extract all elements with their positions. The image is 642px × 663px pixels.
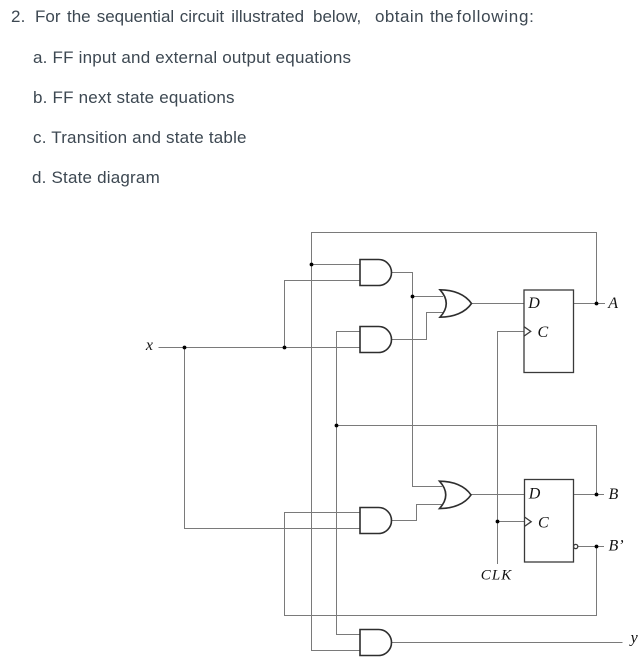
svg-text:y: y xyxy=(629,630,639,647)
wire clock line CLK xyxy=(498,332,525,565)
junction dot clock to FF2 xyxy=(496,520,500,524)
wire x up-branch to gate1 lower input xyxy=(285,281,361,348)
and-gate G3 xyxy=(360,508,392,534)
svg-text:D: D xyxy=(528,485,541,502)
and-gate G2 xyxy=(360,327,392,353)
junction dot node B xyxy=(595,493,599,497)
svg-text:C: C xyxy=(538,515,549,532)
item a xyxy=(33,49,351,66)
item b xyxy=(33,89,235,106)
wire clock branch to FF2 C xyxy=(498,521,525,523)
wire B feedback to gate2 upper input and gate4 xyxy=(337,332,361,635)
wire gate1 output to OR1 and down xyxy=(392,273,443,487)
flip-flop U2 clock triangle xyxy=(525,517,532,526)
wire B-prime feedback down and left xyxy=(285,513,597,616)
svg-text:B’: B’ xyxy=(609,538,624,555)
and-gate G4 xyxy=(360,630,392,656)
wire B output xyxy=(574,494,605,496)
junction dot x to gate1 branch xyxy=(283,346,287,350)
wire x down-branch to gate3 lower input xyxy=(185,348,361,529)
flip-flop U2 body xyxy=(525,480,574,563)
wire B-prime output xyxy=(578,546,604,548)
svg-text:D: D xyxy=(527,295,540,312)
wire OR1 upper input branch xyxy=(413,296,444,298)
wire A vertical to gate4 xyxy=(312,265,361,651)
svg-text:A: A xyxy=(607,295,618,312)
wire gate4 output y xyxy=(392,642,623,644)
svg-text:B: B xyxy=(609,486,619,503)
svg-text:CLK: CLK xyxy=(481,568,513,584)
junction dot gate1 output to OR1 xyxy=(411,295,415,299)
wire gate1 upper input from A line xyxy=(312,264,361,266)
question text line 1 xyxy=(0,7,1,9)
junction dot node A xyxy=(595,302,599,306)
wire A output xyxy=(574,303,606,305)
junction dot node B-prime xyxy=(595,545,599,549)
question number 2. xyxy=(11,8,26,25)
item c xyxy=(33,129,247,146)
wire B feedback horizontal xyxy=(337,426,597,495)
or-gate O2 xyxy=(440,481,472,508)
flip-flop U1 body xyxy=(524,290,574,373)
wire top feedback A xyxy=(312,233,597,304)
junction dot x to gate3 branch xyxy=(183,346,187,350)
flip-flop U1 clock triangle xyxy=(524,327,531,336)
and-gate G1 xyxy=(360,260,392,286)
wire gate2 output to OR1 lower input xyxy=(392,313,444,340)
wire OR1 output to FF1 D xyxy=(472,303,525,305)
item d xyxy=(32,169,160,186)
wire x input line xyxy=(159,347,361,349)
svg-text:C: C xyxy=(538,324,549,341)
junction dot B feedback xyxy=(335,424,339,428)
or-gate O1 xyxy=(440,290,472,317)
flip-flop U2 complement bubble xyxy=(574,544,578,548)
wire OR2 output to FF2 D xyxy=(471,494,525,496)
svg-text:x: x xyxy=(145,337,153,354)
wire gate3 output to OR2 lower input xyxy=(392,505,443,521)
junction dot A line to gate1 xyxy=(310,263,314,267)
